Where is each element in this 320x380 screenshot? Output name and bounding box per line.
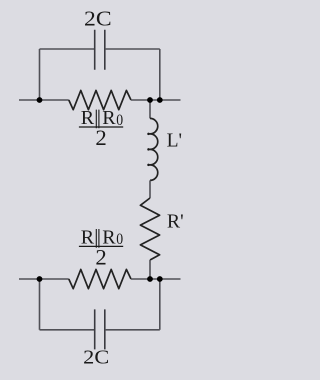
svg-text:2C: 2C (83, 346, 109, 368)
wire top loop top-right horizontal (105, 48, 160, 50)
node top-right loop (157, 97, 163, 103)
node top inductor tap (147, 97, 153, 103)
resistor R||R0/2 top zigzag (69, 90, 131, 109)
svg-text:R: R (81, 226, 95, 248)
wire bottom rail right (131, 278, 181, 280)
wire inductor top lead (149, 100, 151, 118)
wire bottom loop bottom-right horizontal (105, 329, 160, 331)
label R||R0 over 2 fraction (top) (79, 107, 123, 150)
wire top loop left vertical (39, 49, 41, 100)
wire top loop right vertical (159, 49, 161, 100)
wire between L' and R' (149, 180, 151, 198)
svg-text:0: 0 (116, 112, 123, 129)
capacitor 2C bottom plates (95, 309, 105, 349)
node bottom-left (37, 276, 43, 282)
svg-text:2: 2 (95, 125, 106, 150)
inductor L' coil (150, 118, 158, 180)
wire bottom loop right vertical (159, 279, 161, 330)
wire bottom loop bottom-left horizontal (40, 329, 95, 331)
node bottom R' tap (147, 276, 153, 282)
resistor R' zigzag (140, 198, 159, 260)
svg-text:R': R' (167, 210, 184, 232)
node bottom-right loop (157, 276, 163, 282)
capacitor 2C top plates (95, 30, 105, 70)
label R||R0 over 2 fraction (bottom) (79, 226, 123, 269)
wire top loop top-left horizontal (40, 48, 95, 50)
resistor R||R0/2 bottom zigzag (69, 269, 131, 288)
wire top rail right (131, 99, 181, 101)
node top-left (37, 97, 43, 103)
svg-text:2C: 2C (84, 6, 112, 30)
svg-text:R: R (81, 107, 95, 129)
inductor coil joint knobs (147, 133, 150, 167)
svg-text:0: 0 (116, 231, 123, 248)
wire top rail left (19, 99, 69, 101)
svg-text:L': L' (167, 131, 182, 152)
wire bottom rail left (19, 278, 69, 280)
wire bottom loop left vertical (39, 279, 41, 330)
svg-text:2: 2 (95, 244, 106, 269)
wire R' bottom lead (149, 260, 151, 279)
